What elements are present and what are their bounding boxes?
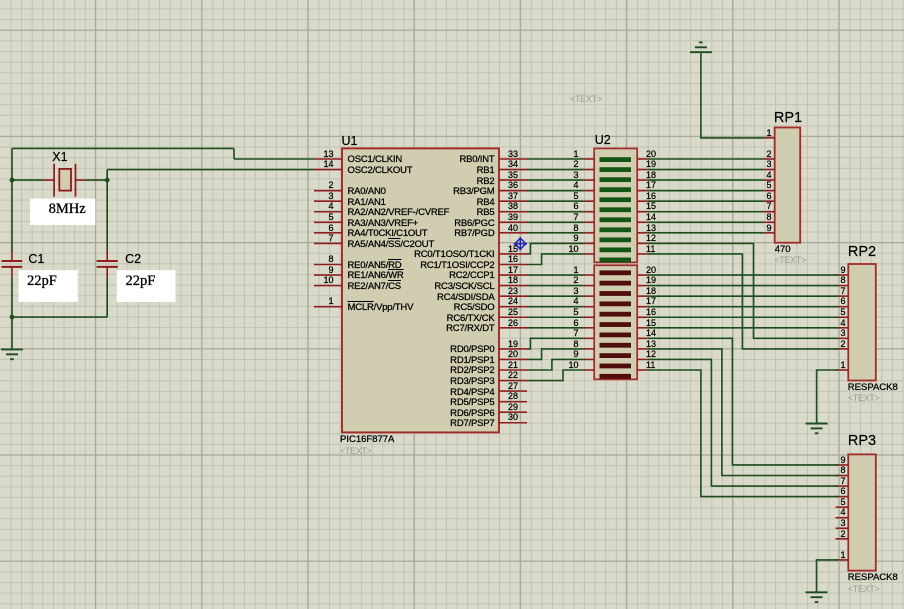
U1 pin number 1 [328,296,333,307]
value box 8MHz [30,199,95,225]
label RP2 [848,247,876,258]
value RESPACK8 (RP2) [848,382,898,393]
label RP3 [848,436,876,447]
wire node to C2 [106,180,108,250]
RP1 pin 8 [766,212,771,223]
U1 pin number 28 [508,391,518,402]
U1 pin number 26 [508,318,518,329]
wire RC7 to U2b pin 6 [527,327,584,329]
U1 pin number 4 [328,201,333,212]
op-amp U1 body (PIC16F877A) [342,148,499,432]
U2b pin 3 [573,286,578,297]
RP3 pin 2 [840,529,845,540]
wire OSC2 vertical to node [106,170,108,181]
U1 pin name RD7/PSP7 [450,418,494,429]
lower bargraph pin stubs [584,274,595,276]
RP3 pin stubs [836,464,849,466]
U2b pin 13 [646,339,656,350]
capacitor C2 top lead [106,251,108,262]
wire C2 to junction [12,316,107,318]
value PIC16F877A [340,434,394,445]
wire junction to ground [11,317,13,349]
U2b pin 15 [646,318,656,329]
capacitor C2 top plate [97,260,118,262]
wire U2a pin 15 to RP1 pin 7 [648,211,764,213]
RP3 pin 9 [840,455,845,466]
U2b pin 1 [573,265,578,276]
wire U2a pin 18 to RP1 pin 4 [648,179,764,181]
U2a pin 14 [646,212,656,223]
wire RD2 to U2b pin 9 [527,359,584,370]
U1 pin number 36 [508,180,518,191]
U1 pin number 18 [508,275,518,286]
crystal X1 body [59,169,71,191]
wire OSC1 vertical step [233,148,235,159]
U1 pin name RC3/SCK/SCL [434,281,494,292]
value 470 [775,244,791,255]
U2a pin 1 [573,149,578,160]
U1 pin name RD6/PSP6 [450,408,494,419]
wire U2b to RP3 via x=711.4 [648,359,838,486]
U1 pin name RB3/PGM [453,186,494,197]
U1 pin name RD3/PSP3 [450,376,494,387]
U1 right pin stubs [499,158,527,160]
X1 left pin lead [44,179,55,181]
wire RB4 to U2a pin 5 [527,200,584,202]
label C1 [28,254,44,265]
U1 pin number 30 [508,412,518,423]
U1 pin name RC7/RX/DT [446,323,494,334]
U1 pin name RC6/TX/CK [447,313,495,324]
node junction X1 right [105,178,110,183]
U2a pin 3 [573,170,578,181]
U1 pin name RA1/AN1 [348,197,386,208]
U1 pin name RC2/CCP1 [449,270,494,281]
U2b pin 5 [573,307,578,318]
U1 pin name RA4/T0CKI/C1OU [348,228,428,239]
U2a pin 12 [646,233,656,244]
U1 pin number 33 [508,149,518,160]
U1 pin name RB7/PGD [454,228,494,239]
U2a pin 6 [573,201,578,212]
capacitor C2 bottom plate [97,266,118,268]
RP2 pin 2 [840,339,845,350]
U1 pin number 8 [328,254,333,265]
U2 upper pin stubs [584,158,595,160]
U1 pin name RB2 [477,176,495,187]
U2b pin 8 [573,339,578,350]
U1 pin name RE0/AN5/<span [348,260,402,271]
U1 pin name RB6/PGC [454,218,494,229]
value box 22pF C1 [19,270,78,302]
wire RC3 to U2b pin 2 [527,285,584,287]
wire U2b pin 19 to RP2 pin 8 [648,285,838,287]
U2 green LED segments [600,157,632,162]
ground (RP1) [690,51,712,53]
capacitor C2 bottom lead [106,267,108,278]
U1 pin number 38 [508,201,518,212]
wire U2b pin 17 to RP2 pin 6 [648,306,838,308]
U1 pin name RD4/PSP4 [450,387,494,398]
U2a pin 8 [573,223,578,234]
wire RB0 to U2a pin 1 [527,158,584,160]
RP1 pin 7 [766,201,771,212]
RP1 pin 1 [766,128,771,139]
RP1 pin 4 [766,170,771,181]
U2a pin 17 [646,180,656,191]
wire RB1 to U2a pin 2 [527,169,584,171]
resistor pack RP2 [848,264,876,381]
crystal X1 right electrode [75,164,77,197]
U2b pin 11 [646,360,655,371]
wire U2a pin 19 to RP1 pin 3 [648,169,764,171]
RP1 pin 9 [766,223,771,234]
U1 pin number 2 [328,180,333,191]
U1 pin number 17 [508,265,518,276]
wire RP2 pin1 to ground [817,370,838,424]
U1 pin name RE2/AN7/<span [348,281,401,292]
wire RD0 to U2b pin 7 [527,338,584,349]
RP2 pin stubs [836,274,849,276]
U2b pin 19 [646,275,656,286]
RP2 pin 9 [840,265,845,276]
label U2 [595,135,611,146]
wire RC4 to U2b pin 3 [527,295,584,297]
node junction X1 left [10,178,15,183]
resistor pack RP3 [848,454,876,570]
wire U2b to RP3 via x=732.4 [648,338,838,465]
wire U2a pin 16 to RP1 pin 6 [648,200,764,202]
wire RB6 to U2a pin 7 [527,221,584,223]
wire RB7 to U2a pin 8 [527,232,584,234]
U1 pin number 40 [508,223,518,234]
U2b pin 7 [573,328,578,339]
U1 pin number 19 [508,339,518,350]
U2a pin 18 [646,170,656,181]
U1 pin name RC5/SDO [454,302,495,313]
U1 pin name RC0/T1OSO/T1CKI [414,249,494,260]
U2b pin 17 [646,296,656,307]
wire RC1 to U2a pin 10 [527,254,584,265]
U1 pin number 23 [508,286,518,297]
RP2 pin 1 [840,360,845,371]
U1 pin number 37 [508,191,518,202]
U1 pin name <span class="o [348,302,414,313]
RP1 pin 5 [766,180,771,191]
wire OSC1 top segment [12,147,234,149]
U2a pin 9 [573,233,578,244]
U2a pin 11 [646,244,655,255]
U2b pin 9 [573,349,578,360]
X1 right pin lead [76,179,87,181]
capacitor C1 top plate [2,260,23,262]
RP2 pin 6 [840,296,845,307]
bargraph display 2 (red) [594,265,637,379]
wire X1 to right node [86,179,107,181]
wire RD1 to U2b pin 8 [527,349,584,360]
U1 pin number 5 [328,212,333,223]
U1 pin number 39 [508,212,518,223]
U2a pin 19 [646,159,656,170]
wire RC2 to U2b pin 1 [527,274,584,276]
label C2 [125,254,141,265]
RP2 <TEXT> placeholder [848,393,880,404]
U1 pin number 24 [508,296,518,307]
U1 pin name RB0/INT [459,154,494,165]
RP2 pin 7 [840,286,845,297]
red LED segments [600,270,632,275]
wire U2b to RP3 via x=700.9 [648,370,838,497]
RP1 pin 3 [766,159,771,170]
capacitor C1 bottom lead [11,267,13,278]
U1 pin number 6 [328,223,333,234]
RP2 pin 8 [840,275,845,286]
value RESPACK8 (RP3) [848,572,898,583]
wire U2b pin 16 to RP2 pin 5 [648,316,838,318]
RP2 pin 4 [840,318,845,329]
wire U2b pin 18 to RP2 pin 7 [648,295,838,297]
U1 pin name RA3/AN3/VREF+ [348,218,419,229]
RP2 pin 3 [840,328,845,339]
RP1 <TEXT> placeholder [774,255,806,266]
U2b pin 14 [646,328,656,339]
U1 pin number 29 [508,402,518,413]
U1 pin name RC4/SDI/SDA [437,292,494,303]
U1 pin name OSC2/CLKOUT [348,165,413,176]
ground (RP3) [806,591,828,593]
U1 pin name RA5/AN4/<span [348,239,435,250]
wire RB3 to U2a pin 4 [527,190,584,192]
U1 pin name RA2/AN2/VREF-/ [348,207,450,218]
capacitor C1 bottom plate [2,266,23,268]
U1 pin name RE1/AN6/<span [348,270,404,281]
RP3 pin 6 [840,486,845,497]
U1 pin number 10 [323,275,333,286]
value box 22pF C2 [117,270,176,302]
U1 pin number 35 [508,170,518,181]
RP3 pin 4 [840,507,845,518]
U1 pin number 9 [328,265,333,276]
wire U2a pin 17 to RP1 pin 5 [648,190,764,192]
RP3 pin 1 [840,550,845,561]
U1 pin name RD5/PSP5 [450,397,494,408]
RP3 pin 7 [840,476,845,487]
U1 pin name RA0/AN0 [348,186,386,197]
U2b pin 12 [646,349,656,360]
U1 pin number 20 [508,349,518,360]
RP3 pin 3 [840,518,845,529]
wire ground to RP1 pin 1 [701,53,764,138]
label RP1 [774,113,802,124]
wire RC0 to U2a pin 9 [527,243,584,254]
U2a pin 10 [568,244,578,255]
wire RC6 to U2b pin 5 [527,316,584,318]
U2b pin 16 [646,307,656,318]
U2a pin 7 [573,212,578,223]
value 22pF (C2) [126,274,156,288]
U1 pin name RB4 [477,197,495,208]
value 22pF (C1) [27,274,57,288]
RP3 pin 5 [840,497,845,508]
capacitor C1 top lead [11,251,13,262]
RP3 <TEXT> placeholder [848,584,880,595]
U1 pin number 16 [508,254,518,265]
wire U2a pin 14 to RP1 pin 8 [648,221,764,223]
U2b pin 10 [568,360,578,371]
U1 pin name OSC1/CLKIN [348,154,403,165]
wire U2a pin 13 to RP1 pin 9 [648,232,764,234]
U1 pin number 21 [508,360,518,371]
ground (RP2) [806,423,828,425]
U1 pin number 15 [508,244,518,255]
wire C1 to ground junction [11,277,13,317]
U2b pin 20 [646,265,656,276]
U2a pin 15 [646,201,656,212]
RP3 pin 8 [840,465,845,476]
wire RC5 to U2b pin 4 [527,306,584,308]
U2a pin 20 [646,149,656,160]
U1 left pin stubs [314,158,342,160]
U2b pin 6 [573,318,578,329]
U1 pin name RD1/PSP1 [450,355,494,366]
U1 pin name RD2/PSP2 [450,365,494,376]
label U1 [342,136,358,147]
U1 pin number 13 [323,149,333,160]
wire OSC2 to U1 pin 14 [107,169,314,171]
RP2 pin 5 [840,307,845,318]
U1 pin number 34 [508,159,518,170]
U1 pin name RB1 [477,165,495,176]
U1 pin number 27 [508,381,518,392]
U2a pin 16 [646,191,656,202]
U2 bargraph display (green) [594,148,637,262]
RP2 pin 1 stub [836,369,849,371]
wire U2a pin 20 to RP1 pin 2 [648,158,764,160]
origin marker [514,237,527,250]
U2b pin 18 [646,286,656,297]
wire node to X1 left lead [12,179,44,181]
wire C2 down [106,277,108,317]
RP1 pin 6 [766,191,771,202]
RP1 pin stubs [764,137,775,139]
U2b pin 2 [573,275,578,286]
U1 pin number 22 [508,370,518,381]
RP3 pin 1 stub [836,559,849,561]
wire RP3 pin1 to ground [817,560,838,592]
value 8MHz [49,202,86,216]
wire RD3 to U2b pin 10 [527,370,584,381]
wire U2b pin 15 to RP2 pin 4 [648,327,838,329]
U2b pin 4 [573,296,578,307]
U2a pin 13 [646,223,656,234]
junction dot ground net [10,315,15,320]
U1 pin number 7 [328,233,333,244]
U2a pin 5 [573,191,578,202]
wire U2b pin 20 to RP2 pin 9 [648,274,838,276]
wire OSC1 to U1 pin 13 [234,158,314,160]
label X1 [52,152,67,163]
U1 pin name RB5 [477,207,495,218]
wire RB2 to U2a pin 3 [527,179,584,181]
U2a pin 2 [573,159,578,170]
wire U2a pin 12 to RP2 pin 3 [648,243,838,338]
U1 pin number 14 [323,159,333,170]
U1 pin name RC1/T1OSI/CCP2 [420,260,494,271]
U1 pin name RD0/PSP0 [450,344,494,355]
wire left rail down to C1 [11,148,13,251]
U2 <TEXT> placeholder [570,94,602,105]
U1 pin number 3 [328,191,333,202]
U2a pin 4 [573,180,578,191]
wire U2a pin 11 to RP2 pin 2 [648,254,838,349]
resistor pack RP1 [775,128,801,243]
wire RB5 to U2a pin 6 [527,211,584,213]
U1 pin number 25 [508,307,518,318]
U1 <TEXT> placeholder [340,446,372,457]
RP1 pin 2 [766,149,771,160]
ground (C1/C2) [1,348,23,350]
wire U2b to RP3 via x=721.9 [648,349,838,476]
crystal X1 left electrode [53,164,55,197]
